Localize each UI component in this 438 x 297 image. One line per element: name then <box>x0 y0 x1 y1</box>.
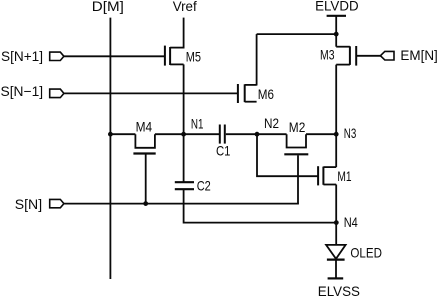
wire M4 to C1 <box>155 133 219 135</box>
wire C2 down and across to N4 <box>184 189 337 222</box>
wire Vref vertical stub <box>183 18 185 49</box>
svg-text:M1: M1 <box>337 168 351 184</box>
svg-text:N1: N1 <box>191 115 204 131</box>
svg-text:Vref: Vref <box>173 0 197 14</box>
svg-text:C1: C1 <box>216 142 231 158</box>
wire N2 down to M1 gate <box>257 134 318 176</box>
node N3 <box>334 125 357 141</box>
svg-text:ELVDD: ELVDD <box>315 0 359 13</box>
svg-text:M4: M4 <box>136 119 153 135</box>
svg-text:M3: M3 <box>320 47 335 63</box>
power ELVDD <box>315 0 359 47</box>
wire M5 source to N1 <box>183 64 185 134</box>
wire C1 to M2 <box>226 133 287 135</box>
transistor M6 <box>238 84 274 103</box>
transistor M5 <box>165 46 201 66</box>
svg-text:M5: M5 <box>186 48 201 64</box>
wire S[N-1] to M6 gate <box>64 92 237 94</box>
wire M1 source to N4 <box>335 185 337 245</box>
wire M6 branch to ELVDD <box>257 33 337 35</box>
transistor M3 <box>320 46 356 66</box>
svg-text:S[N+1]: S[N+1] <box>1 48 43 64</box>
input port EM[N] <box>380 47 437 63</box>
wire D[M] vertical data line <box>109 18 111 279</box>
svg-text:N3: N3 <box>344 125 357 141</box>
junction dot on D[M] row <box>108 132 113 137</box>
junction dot M4 gate on S[N] <box>143 201 148 206</box>
node N4 <box>334 214 358 230</box>
wire OLED cathode to ELVSS <box>335 260 337 279</box>
transistor M4 <box>133 119 155 204</box>
svg-text:N2: N2 <box>264 115 279 131</box>
input port S[N+1] <box>1 48 64 64</box>
svg-text:EM[N]: EM[N] <box>400 47 437 63</box>
wire N1 down to C2 <box>183 134 185 182</box>
input port S[N] <box>15 196 64 212</box>
svg-text:M2: M2 <box>289 119 306 135</box>
junction dot at ELVDD branch <box>334 32 339 37</box>
capacitor C1 <box>216 125 231 159</box>
wire S[N] row <box>64 203 299 205</box>
power ELVSS <box>318 278 360 297</box>
wire M2 to N3 <box>306 133 336 135</box>
svg-text:S[N−1]: S[N−1] <box>1 83 44 99</box>
node N1 <box>181 115 203 136</box>
wire S[N+1] to M5 gate <box>64 55 164 57</box>
capacitor C2 <box>175 178 211 194</box>
node N2 <box>255 115 280 136</box>
wire ELVDD to M1 through N3 <box>335 65 337 168</box>
svg-text:N4: N4 <box>344 214 358 230</box>
diode OLED <box>326 244 382 260</box>
wire M3 gate lead <box>356 55 381 57</box>
svg-text:C2: C2 <box>197 178 211 194</box>
transistor M1 <box>318 166 352 185</box>
svg-text:D[M]: D[M] <box>92 0 124 14</box>
wire D[M] to M4 <box>110 133 135 135</box>
input port S[N-1] <box>1 83 64 99</box>
svg-text:M6: M6 <box>258 86 274 102</box>
svg-text:OLED: OLED <box>350 244 382 260</box>
svg-text:ELVSS: ELVSS <box>318 283 360 297</box>
wire M6 drain up <box>256 34 258 85</box>
transistor M2 <box>284 119 308 204</box>
svg-text:S[N]: S[N] <box>15 196 42 212</box>
